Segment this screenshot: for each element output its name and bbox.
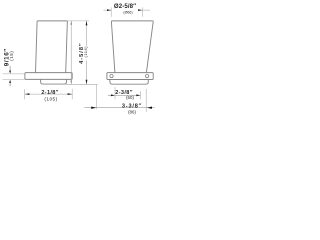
bottom-left dimension extension lines: [25, 89, 73, 100]
height dimension mm line: [86, 21, 88, 84]
plate thickness down arrow: [9, 66, 11, 71]
bottom-left arrows: [25, 93, 30, 95]
dim2 line: [84, 107, 154, 109]
svg-text:2-1/8″: 2-1/8″: [41, 90, 58, 96]
plate thickness extension lines: [3, 74, 25, 80]
height dimension inch line: [70, 21, 72, 84]
dim2 left ext line: [95, 84, 97, 109]
dim2 right ext line: [145, 89, 147, 112]
svg-text:(118): (118): [83, 46, 88, 58]
dim2 left arrow: [91, 107, 96, 109]
left view foot: [41, 79, 67, 84]
left view base plate: [25, 73, 72, 80]
right view foot: [110, 80, 148, 85]
right screw hole right: [146, 75, 149, 78]
right screw hole left: [110, 75, 113, 78]
plate thickness up arrow: [9, 83, 11, 86]
right view base plate: [107, 73, 153, 80]
svg-text:(86): (86): [128, 109, 136, 114]
top dim line with tails: [103, 9, 150, 11]
dim2 right arrow: [147, 107, 152, 109]
svg-text:(105): (105): [44, 97, 57, 103]
height dim bottom extension line: [65, 83, 98, 85]
top dim arrows: [107, 9, 111, 11]
svg-text:(60): (60): [126, 95, 134, 100]
background: [0, 0, 160, 119]
svg-text:(Ø66): (Ø66): [123, 10, 132, 14]
height mm arrows: [86, 21, 88, 25]
right view cup body: [111, 21, 153, 73]
bottom-left dimension line: [25, 93, 72, 95]
left view cup body: [36, 21, 68, 73]
svg-text:Ø2-5/8″: Ø2-5/8″: [114, 3, 136, 10]
dim1 ext lines: [115, 87, 140, 99]
dim1 arrows: [111, 94, 115, 96]
top dim ext lines: [111, 7, 142, 16]
dim1 line with left tail: [108, 94, 141, 96]
height dim top extension line: [67, 20, 89, 22]
svg-text:(15): (15): [9, 51, 14, 61]
height inch arrows: [71, 21, 72, 25]
